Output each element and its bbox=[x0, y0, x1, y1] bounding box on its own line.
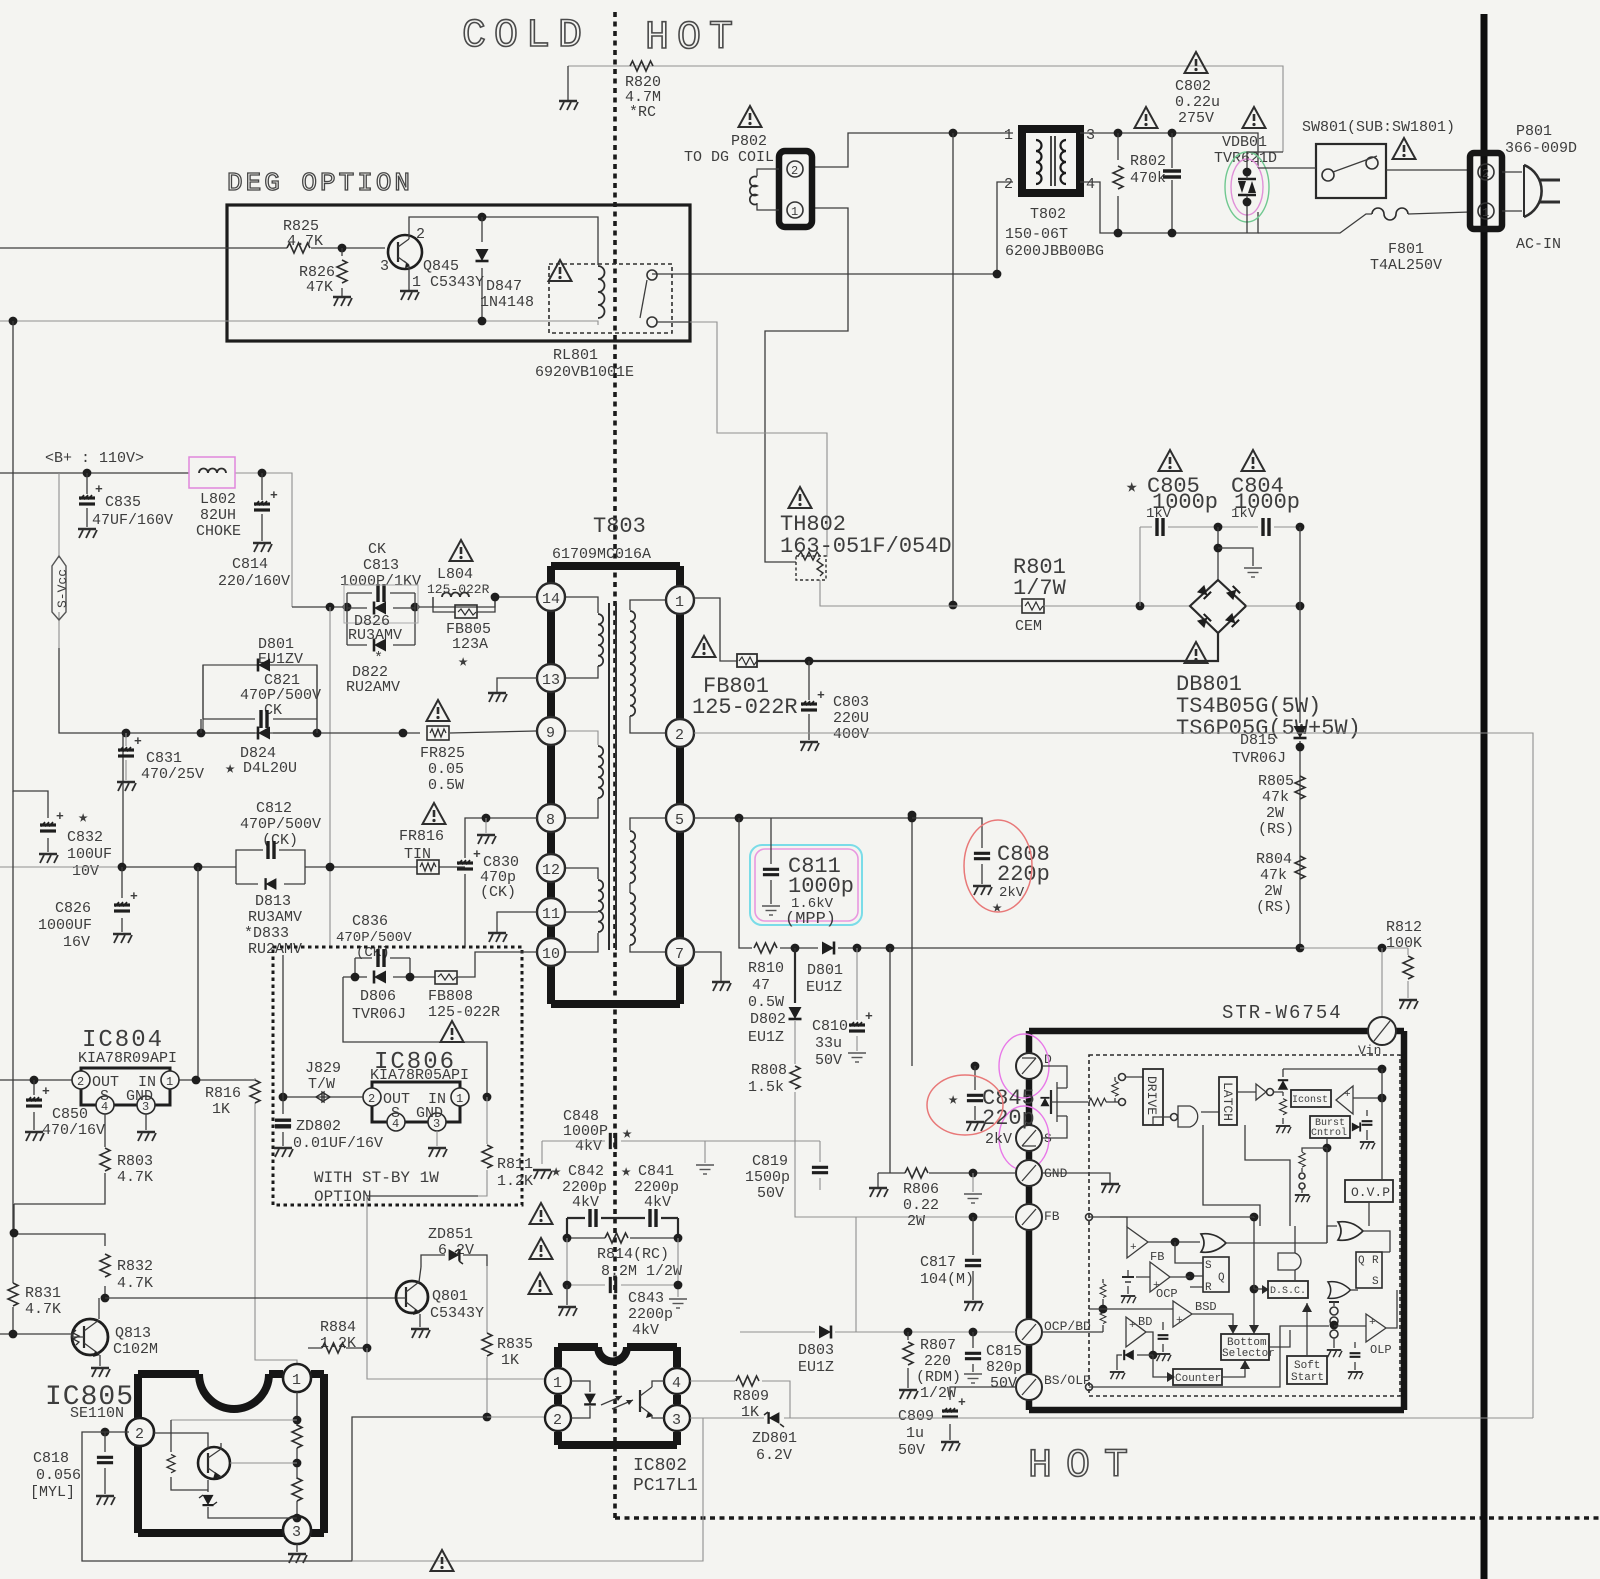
capacitor C809 bbox=[950, 1387, 1016, 1440]
pin S bbox=[1016, 1125, 1042, 1151]
svg-text:C818: C818 bbox=[33, 1450, 69, 1467]
svg-text:50V: 50V bbox=[815, 1052, 842, 1069]
svg-text:2kV: 2kV bbox=[985, 1131, 1012, 1148]
wire bridge right to HV vertical bbox=[1246, 605, 1300, 607]
svg-text:C835: C835 bbox=[105, 494, 141, 511]
svg-text:EU1Z: EU1Z bbox=[798, 1359, 834, 1376]
svg-text:6200JBB00BG: 6200JBB00BG bbox=[1005, 243, 1104, 260]
capacitor C803 bbox=[808, 661, 810, 740]
capacitor C808 circled bbox=[908, 811, 917, 820]
diode D806 bbox=[343, 976, 435, 978]
wire rail y1080 to IC804 bbox=[0, 1079, 81, 1081]
svg-text:C102M: C102M bbox=[113, 1341, 158, 1358]
wire down from C813 rail to IC806 area bbox=[329, 607, 331, 948]
T803 pin 5 bbox=[666, 804, 694, 832]
svg-text:8: 8 bbox=[546, 812, 555, 829]
diode ZD801 bbox=[690, 1417, 1533, 1419]
wire HV vertical x1300 bbox=[1299, 527, 1301, 948]
pin GND bbox=[1016, 1160, 1042, 1186]
block Iconst bbox=[1291, 1090, 1331, 1107]
svg-text:Cntrol: Cntrol bbox=[1311, 1127, 1347, 1139]
svg-text:275V: 275V bbox=[1178, 110, 1214, 127]
wire BS/OLP to OLP bbox=[1089, 1326, 1329, 1387]
svg-text:STR-W6754: STR-W6754 bbox=[1222, 1002, 1343, 1024]
svg-text:50V: 50V bbox=[757, 1185, 784, 1202]
spark gap internal bbox=[1329, 1301, 1339, 1303]
svg-text:Iconst: Iconst bbox=[1292, 1095, 1328, 1106]
svg-text:TVR06J: TVR06J bbox=[1232, 750, 1286, 767]
ground pin13 bbox=[497, 678, 537, 692]
svg-text:1kV: 1kV bbox=[1231, 506, 1257, 522]
svg-text:OCP: OCP bbox=[1156, 1287, 1178, 1301]
svg-text:S: S bbox=[1372, 1276, 1379, 1288]
block Counter bbox=[1173, 1369, 1222, 1385]
wire relay coil bottom net bbox=[0, 321, 598, 325]
svg-text:C819: C819 bbox=[752, 1153, 788, 1170]
svg-text:RU2AMV: RU2AMV bbox=[346, 679, 400, 696]
resistor OCP divider bbox=[1102, 1279, 1104, 1332]
gate NAND internal bbox=[1178, 1106, 1198, 1127]
svg-text:R802: R802 bbox=[1130, 153, 1166, 170]
svg-text:1u: 1u bbox=[906, 1425, 924, 1442]
wire T802 pin2 vertical bbox=[997, 182, 1013, 274]
capacitor C819 bbox=[819, 1141, 821, 1190]
wire rail y867 bbox=[0, 866, 123, 868]
svg-text:400V: 400V bbox=[833, 726, 869, 743]
wire bottom to IC802 pin3 net bbox=[352, 1418, 703, 1561]
svg-text:1K: 1K bbox=[212, 1101, 230, 1118]
IC802 light arrows bbox=[601, 1396, 633, 1409]
svg-text:47UF/160V: 47UF/160V bbox=[92, 512, 173, 529]
svg-text:WITH ST-BY 1W: WITH ST-BY 1W bbox=[314, 1169, 439, 1187]
node AC mains thick separator line bbox=[1481, 14, 1488, 1579]
diode iconst internal bbox=[1282, 1069, 1284, 1124]
block Burst Cntrol bbox=[1310, 1116, 1350, 1138]
svg-text:1: 1 bbox=[166, 1075, 173, 1089]
svg-text:OPTION: OPTION bbox=[314, 1188, 372, 1206]
svg-text:6920VB1001E: 6920VB1001E bbox=[535, 364, 634, 381]
svg-text:[MYL]: [MYL] bbox=[30, 1484, 75, 1501]
svg-text:DRIVE: DRIVE bbox=[1144, 1076, 1159, 1115]
svg-text:125-022R: 125-022R bbox=[428, 1004, 500, 1021]
warning triangle L804 bbox=[450, 540, 473, 561]
svg-text:220U: 220U bbox=[833, 710, 869, 727]
svg-text:Soft: Soft bbox=[1294, 1360, 1320, 1372]
svg-text:S: S bbox=[100, 1088, 109, 1105]
diode burst out bbox=[1352, 1122, 1360, 1131]
capacitor OLP bbox=[1354, 1342, 1356, 1370]
pin BS/OLP bbox=[1016, 1374, 1042, 1400]
gate AND internal bbox=[1278, 1253, 1301, 1270]
resistor R802 bbox=[1113, 166, 1123, 189]
ground IC804 GND bbox=[145, 1114, 147, 1130]
wire C813 rail bbox=[292, 606, 347, 608]
svg-text:4kV: 4kV bbox=[644, 1194, 671, 1211]
svg-text:2: 2 bbox=[675, 727, 684, 744]
transistor Q801 bbox=[396, 1281, 428, 1313]
IC802 pin 4 bbox=[664, 1368, 690, 1394]
capacitor C811 highlighted bbox=[750, 845, 862, 925]
svg-text:4kV: 4kV bbox=[572, 1194, 599, 1211]
wire R803 net bbox=[14, 1204, 105, 1246]
transistor Q813 bbox=[72, 1319, 108, 1355]
svg-text:★: ★ bbox=[78, 809, 88, 828]
svg-text:4.7K: 4.7K bbox=[117, 1169, 153, 1186]
resistor R803 bbox=[14, 1114, 105, 1204]
relay coil bbox=[598, 266, 605, 318]
svg-text:D802: D802 bbox=[750, 1011, 786, 1028]
svg-text:FB808: FB808 bbox=[428, 988, 473, 1005]
pin OCP/BD bbox=[1016, 1319, 1042, 1345]
IC805 box bbox=[138, 1374, 324, 1533]
diode D847 1N4148 bbox=[481, 217, 483, 320]
wire VDB01 top to switch bbox=[1247, 152, 1283, 172]
svg-text:+: + bbox=[1129, 1320, 1136, 1332]
relay RL801 dashed box bbox=[549, 264, 672, 333]
svg-text:*D833: *D833 bbox=[244, 925, 289, 942]
svg-text:R832: R832 bbox=[117, 1258, 153, 1275]
svg-text:★: ★ bbox=[948, 1091, 958, 1110]
svg-text:Q845: Q845 bbox=[423, 258, 459, 275]
svg-text:R816: R816 bbox=[205, 1085, 241, 1102]
block Bottom Selector bbox=[1221, 1334, 1269, 1360]
latch SR internal bbox=[1203, 1257, 1229, 1292]
diode BD internal bbox=[1124, 1350, 1134, 1360]
svg-text:C5343Y: C5343Y bbox=[430, 1305, 484, 1322]
ferrite bead FB801 bbox=[737, 654, 757, 667]
svg-text:C841: C841 bbox=[638, 1163, 674, 1180]
svg-text:3: 3 bbox=[292, 1524, 301, 1541]
svg-text:4.7K: 4.7K bbox=[117, 1275, 153, 1292]
svg-text:2: 2 bbox=[791, 164, 798, 178]
diode D822 bbox=[347, 644, 415, 646]
svg-text:0.01UF/16V: 0.01UF/16V bbox=[293, 1135, 383, 1152]
svg-text:47K: 47K bbox=[306, 279, 333, 296]
svg-text:SW801(SUB:SW1801): SW801(SUB:SW1801) bbox=[1302, 119, 1455, 136]
svg-text:47: 47 bbox=[752, 977, 770, 994]
resistor R805 bbox=[1295, 776, 1305, 799]
svg-text:4: 4 bbox=[672, 1375, 681, 1392]
flipflop QR internal bbox=[1356, 1252, 1382, 1288]
svg-text:EU1Z: EU1Z bbox=[806, 979, 842, 996]
box DEG OPTION bbox=[227, 205, 690, 341]
svg-text:14: 14 bbox=[542, 591, 560, 608]
svg-text:★: ★ bbox=[551, 1163, 561, 1182]
svg-text:2: 2 bbox=[77, 1075, 84, 1089]
wire P802 pin1 down to TH802 bbox=[765, 208, 848, 562]
capacitor C831 bbox=[122, 729, 131, 738]
svg-text:+: + bbox=[1344, 1089, 1351, 1101]
svg-text:R806: R806 bbox=[903, 1181, 939, 1198]
wire IC806 IN junction bbox=[483, 1093, 492, 1102]
diode D826 bbox=[347, 607, 415, 609]
capacitor C850 bbox=[33, 1080, 35, 1130]
node HOT area bottom dashed line bbox=[615, 1516, 1600, 1520]
diode D824 bbox=[258, 727, 270, 740]
wire Q813 base bbox=[0, 1334, 84, 1337]
warning triangle P802 bbox=[739, 106, 762, 127]
svg-text:470/16V: 470/16V bbox=[42, 1122, 105, 1139]
svg-text:BS/OLP: BS/OLP bbox=[1044, 1373, 1091, 1388]
gate OR2 internal bbox=[1328, 1282, 1351, 1299]
node COLD/HOT divider dashed line bbox=[613, 12, 617, 1520]
svg-text:R809: R809 bbox=[733, 1388, 769, 1405]
op-amp Iconst internal bbox=[1336, 1086, 1353, 1114]
svg-text:R812: R812 bbox=[1386, 919, 1422, 936]
svg-text:C817: C817 bbox=[920, 1254, 956, 1271]
ground Q801 emitter bbox=[419, 1314, 421, 1327]
svg-text:1/7W: 1/7W bbox=[1013, 576, 1067, 601]
wire base net into DEG box bbox=[0, 247, 287, 249]
svg-text:D847: D847 bbox=[486, 278, 522, 295]
svg-text:Q: Q bbox=[1218, 1272, 1225, 1284]
svg-text:★: ★ bbox=[1126, 476, 1137, 498]
svg-text:8.2M 1/2W: 8.2M 1/2W bbox=[601, 1263, 682, 1280]
svg-text:C842: C842 bbox=[568, 1163, 604, 1180]
svg-text:R803: R803 bbox=[117, 1153, 153, 1170]
IC802 pin 1 bbox=[545, 1368, 571, 1394]
resistor burst chain bbox=[1326, 1138, 1328, 1148]
svg-text:C802: C802 bbox=[1175, 78, 1211, 95]
svg-text:FR816: FR816 bbox=[399, 828, 444, 845]
T803 winding P3 bbox=[563, 868, 598, 879]
warning triangles C842 area bbox=[530, 1203, 553, 1224]
pin FB bbox=[1016, 1204, 1042, 1230]
wire T802 pin3 net bbox=[1080, 133, 1258, 168]
warning triangle VDB01 bbox=[1243, 107, 1266, 128]
svg-text:104(M): 104(M) bbox=[920, 1271, 974, 1288]
svg-text:1kV: 1kV bbox=[1146, 506, 1172, 522]
wire TH802 to R801 rail bbox=[820, 580, 953, 606]
T803 pin 2 bbox=[666, 719, 694, 747]
amplifier OLP internal bbox=[1366, 1314, 1386, 1342]
svg-text:FB: FB bbox=[1150, 1250, 1164, 1264]
resistor R810 bbox=[754, 943, 777, 953]
svg-text:T4AL250V: T4AL250V bbox=[1370, 257, 1442, 274]
optocoupler IC802 box bbox=[558, 1347, 677, 1445]
node S-Vcc flag bbox=[58, 473, 60, 648]
ferrite bead FB805 bbox=[433, 597, 495, 612]
wire relay to T802 pin1 net bbox=[652, 273, 997, 275]
wire C818 bottom loop bbox=[82, 1417, 487, 1561]
svg-text:R814(RC): R814(RC) bbox=[597, 1246, 669, 1263]
T803 winding P1 bbox=[563, 597, 598, 613]
T803 pin 12 bbox=[537, 854, 565, 882]
ferrite bead FB808 bbox=[435, 971, 457, 984]
svg-text:1: 1 bbox=[791, 205, 798, 219]
svg-text:1: 1 bbox=[675, 594, 684, 611]
svg-text:L804: L804 bbox=[437, 566, 473, 583]
svg-text:1: 1 bbox=[1004, 127, 1013, 144]
svg-text:33u: 33u bbox=[815, 1035, 842, 1052]
warning triangle bottom bbox=[431, 1550, 454, 1571]
T803 pin 1 bbox=[666, 586, 694, 614]
svg-text:TVR06J: TVR06J bbox=[352, 1006, 406, 1023]
wire R820 net bbox=[568, 66, 1283, 152]
ground for R820 wire bbox=[567, 66, 569, 100]
resistor R808 bbox=[795, 1021, 1014, 1217]
capacitor C826 bbox=[121, 867, 123, 932]
capacitor burst bbox=[1366, 1110, 1368, 1140]
resistor R835 bbox=[486, 1266, 488, 1417]
svg-text:2: 2 bbox=[553, 1412, 562, 1429]
pin D bbox=[1016, 1053, 1042, 1079]
svg-text:4: 4 bbox=[1086, 176, 1095, 193]
wire FB net internal bbox=[1088, 1216, 1090, 1218]
T803 pin 8 bbox=[537, 804, 565, 832]
IC802 phototransistor bbox=[639, 1390, 641, 1412]
svg-text:BD: BD bbox=[1138, 1315, 1152, 1329]
svg-text:D806: D806 bbox=[360, 988, 396, 1005]
svg-text:IC802: IC802 bbox=[633, 1456, 687, 1476]
amplifier OCP internal bbox=[1150, 1262, 1170, 1292]
svg-text:R831: R831 bbox=[25, 1285, 61, 1302]
svg-text:3: 3 bbox=[380, 258, 389, 275]
svg-text:C809: C809 bbox=[898, 1408, 934, 1425]
svg-text:1K: 1K bbox=[501, 1352, 519, 1369]
capacitor C835 electrolytic bbox=[86, 473, 88, 527]
svg-text:★: ★ bbox=[621, 1163, 631, 1182]
svg-text:12: 12 bbox=[542, 862, 560, 879]
ground IC806 GND bbox=[436, 1131, 438, 1146]
svg-text:10V: 10V bbox=[72, 863, 99, 880]
svg-text:★: ★ bbox=[458, 653, 468, 672]
wire C805 junction down to bridge bbox=[1217, 527, 1219, 580]
capacitor C817 bbox=[969, 1213, 978, 1222]
svg-text:3: 3 bbox=[672, 1412, 681, 1429]
svg-text:100UF: 100UF bbox=[67, 846, 112, 863]
capacitor C815 bbox=[969, 1328, 978, 1337]
svg-text:0.05: 0.05 bbox=[428, 761, 464, 778]
IC802 LED bbox=[571, 1381, 590, 1418]
svg-text:ZD801: ZD801 bbox=[752, 1430, 797, 1447]
svg-text:PC17L1: PC17L1 bbox=[633, 1476, 698, 1496]
T803 winding S1 bbox=[630, 600, 667, 610]
svg-text:1000UF: 1000UF bbox=[38, 917, 92, 934]
ground Q813 emitter bbox=[99, 1355, 101, 1366]
svg-text:R: R bbox=[1205, 1282, 1212, 1294]
gate OR1 internal bbox=[1201, 1234, 1226, 1253]
transistor MOSFET internal bbox=[1057, 1082, 1067, 1122]
svg-text:11: 11 bbox=[542, 906, 560, 923]
IC806 dashed option box bbox=[273, 947, 522, 1205]
svg-text:2: 2 bbox=[1482, 167, 1489, 181]
capacitor C814 electrolytic bbox=[261, 473, 263, 541]
wire Vin bbox=[1381, 948, 1383, 1018]
capacitor BSD ref bbox=[1162, 1322, 1164, 1352]
svg-text:2W: 2W bbox=[1266, 805, 1284, 822]
capacitor C818 bbox=[101, 1428, 110, 1437]
svg-text:0.22: 0.22 bbox=[903, 1197, 939, 1214]
wire D806 to IC806 IN bbox=[343, 977, 487, 1097]
svg-text:0.5W: 0.5W bbox=[428, 777, 464, 794]
svg-text:CEM: CEM bbox=[1015, 618, 1042, 635]
capacitor C832 bbox=[13, 321, 48, 852]
fusible resistor FR825 bbox=[427, 726, 449, 740]
svg-text:P802: P802 bbox=[731, 133, 767, 150]
svg-text:0.056: 0.056 bbox=[36, 1467, 81, 1484]
svg-text:VDB01: VDB01 bbox=[1222, 134, 1267, 151]
svg-text:RL801: RL801 bbox=[553, 347, 598, 364]
warning triangle C802 bbox=[1185, 52, 1208, 73]
svg-text:C831: C831 bbox=[146, 750, 182, 767]
block LATCH bbox=[1219, 1077, 1237, 1125]
svg-text:220/160V: 220/160V bbox=[218, 573, 290, 590]
block OVP bbox=[1345, 1180, 1393, 1202]
resistor R814 bbox=[567, 1237, 678, 1239]
svg-text:1: 1 bbox=[292, 1372, 301, 1389]
svg-text:★: ★ bbox=[225, 760, 235, 779]
svg-text:47k: 47k bbox=[1262, 789, 1289, 806]
fuse F801 bbox=[1258, 212, 1470, 233]
svg-text:(CK): (CK) bbox=[480, 884, 516, 901]
resistor R809 bbox=[690, 1381, 790, 1418]
wire main HV rail y661 bbox=[757, 633, 1218, 661]
ground IC805 pin3 bbox=[296, 1544, 298, 1552]
ground GND pin internal bbox=[1042, 1173, 1110, 1183]
svg-text:KIA78R09API: KIA78R09API bbox=[78, 1050, 177, 1067]
capacitor C845 circled bbox=[971, 1062, 980, 1071]
resistor R820 bbox=[630, 61, 653, 71]
svg-text:50V: 50V bbox=[898, 1442, 925, 1459]
ground pin11 bbox=[497, 912, 537, 932]
resistor R807 bbox=[904, 1328, 913, 1337]
wire Q845 collector to D847 to relay coil bbox=[409, 217, 598, 265]
svg-text:S: S bbox=[391, 1105, 400, 1122]
svg-text:R804: R804 bbox=[1256, 851, 1292, 868]
svg-text:0.5W: 0.5W bbox=[748, 994, 784, 1011]
svg-text:R805: R805 bbox=[1258, 773, 1294, 790]
svg-text:TO DG COIL: TO DG COIL bbox=[684, 149, 774, 166]
transformer T803 core bbox=[609, 603, 616, 950]
svg-text:Selector: Selector bbox=[1222, 1348, 1275, 1360]
svg-text:T803: T803 bbox=[593, 514, 646, 539]
svg-text:S: S bbox=[1205, 1260, 1212, 1272]
svg-text:163-051F/054D: 163-051F/054D bbox=[780, 534, 952, 559]
transistor Q845 bbox=[388, 235, 422, 269]
ground Q845 emitter bbox=[408, 266, 410, 290]
wire T802 pin4 net bbox=[1080, 182, 1258, 233]
svg-text:4kV: 4kV bbox=[632, 1322, 659, 1339]
amplifier BD internal bbox=[1126, 1317, 1146, 1347]
wire junction 953 down to R801 bbox=[952, 133, 954, 605]
svg-text:ZD802: ZD802 bbox=[296, 1118, 341, 1135]
svg-text:(RDM): (RDM) bbox=[916, 1369, 961, 1386]
capacitor C802 bbox=[1163, 171, 1181, 177]
resistor R831 bbox=[8, 1283, 18, 1306]
svg-text:470k: 470k bbox=[1130, 170, 1166, 187]
svg-text:4.7K: 4.7K bbox=[25, 1301, 61, 1318]
svg-text:S-Vcc: S-Vcc bbox=[55, 569, 70, 608]
svg-text:16V: 16V bbox=[63, 934, 90, 951]
svg-text:(MPP): (MPP) bbox=[785, 910, 836, 929]
svg-text:FR825: FR825 bbox=[420, 745, 465, 762]
svg-text:R835: R835 bbox=[497, 1336, 533, 1353]
wire R884 to IC802 pin1 bbox=[367, 1348, 546, 1379]
warning triangle SW801 bbox=[1393, 138, 1416, 159]
resistor R826 bbox=[338, 244, 347, 253]
svg-text:CHOKE: CHOKE bbox=[196, 523, 241, 540]
inductor L804 bbox=[442, 593, 469, 598]
capacitor C841 symbol bbox=[650, 1209, 656, 1227]
wire left rail x13 bbox=[12, 791, 14, 1334]
T803 pin 10 bbox=[537, 938, 565, 966]
block DRIVE bbox=[1143, 1069, 1163, 1125]
svg-text:R808: R808 bbox=[751, 1062, 787, 1079]
svg-text:2kV: 2kV bbox=[999, 885, 1025, 901]
svg-text:366-009D: 366-009D bbox=[1505, 140, 1577, 157]
svg-text:T/W: T/W bbox=[308, 1076, 335, 1093]
